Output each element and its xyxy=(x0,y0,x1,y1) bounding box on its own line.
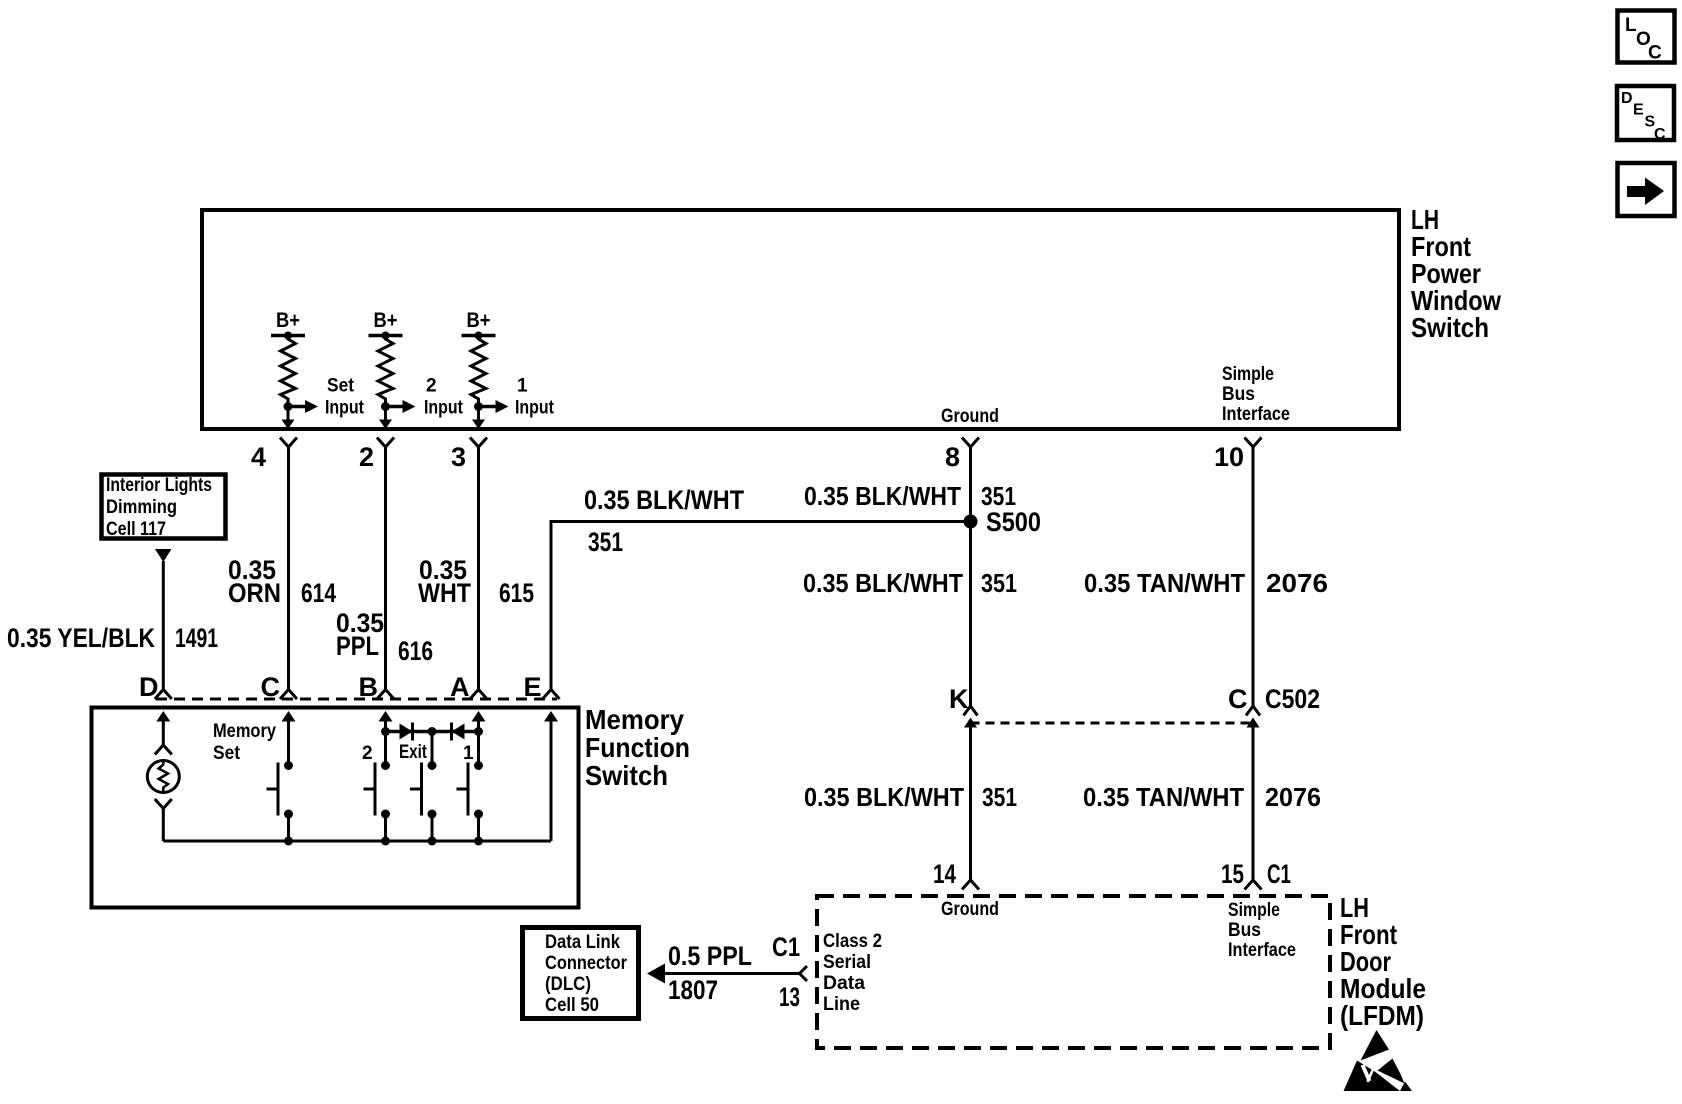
wire 351 K to pin 14 xyxy=(969,726,972,880)
diode D2 xyxy=(452,723,465,741)
svg-text:Memory: Memory xyxy=(585,704,684,735)
label 0.35 WHT on wire 615 xyxy=(418,555,471,608)
svg-text:S500: S500 xyxy=(986,507,1041,537)
svg-text:0.35 YEL/BLK: 0.35 YEL/BLK xyxy=(7,623,155,653)
label 0.35 BLK/WHT below S500 xyxy=(803,568,963,598)
svg-text:15: 15 xyxy=(1221,859,1244,889)
label 614 xyxy=(301,578,336,608)
svg-text:351: 351 xyxy=(982,782,1017,812)
connector pin 3 of window switch xyxy=(451,438,487,473)
component box: LH Front Power Window Switch xyxy=(202,210,1399,429)
connector fork at memory pin B xyxy=(377,690,394,700)
svg-text:Ground: Ground xyxy=(941,406,999,427)
label 0.5 PPL xyxy=(668,941,752,971)
wire 2076 C to pin 15 xyxy=(1252,726,1255,880)
resistor R3 with B+ feed and output arrow xyxy=(462,309,555,429)
svg-text:Switch: Switch xyxy=(1411,312,1489,343)
svg-text:C: C xyxy=(1228,684,1248,714)
label C502 xyxy=(1265,684,1320,714)
svg-text:Line: Line xyxy=(823,994,860,1015)
wire 1807 DLC to C1 pin 13 xyxy=(661,972,800,975)
component box: Data Link Connector xyxy=(523,928,639,1019)
svg-text:0.35 BLK/WHT: 0.35 BLK/WHT xyxy=(804,782,964,812)
lamp socket fork lower xyxy=(155,799,172,809)
label pin E xyxy=(524,672,542,702)
svg-text:Input: Input xyxy=(424,398,464,419)
splice S500 xyxy=(964,515,978,529)
svg-text:Cell 117: Cell 117 xyxy=(106,519,166,540)
svg-text:2: 2 xyxy=(426,376,437,397)
connector fork at memory pin A xyxy=(470,690,487,700)
svg-text:351: 351 xyxy=(981,568,1017,598)
component box: Memory Function Switch xyxy=(92,708,579,908)
label K (C502 pin) xyxy=(949,684,969,714)
label LH Front Door Module (LFDM) xyxy=(1340,892,1426,1031)
svg-text:3: 3 xyxy=(451,442,466,472)
label 13 xyxy=(779,982,800,1012)
svg-text:2076: 2076 xyxy=(1266,568,1328,598)
svg-text:E: E xyxy=(1633,102,1644,119)
svg-text:Interface: Interface xyxy=(1222,404,1290,425)
label Class 2 Serial Data Line xyxy=(823,931,882,1015)
label 0.35 BLK/WHT above S500 xyxy=(804,481,961,511)
label C1 at pin 13 xyxy=(772,932,800,962)
connector pin 8 of window switch xyxy=(945,438,979,473)
svg-text:Data: Data xyxy=(823,973,865,994)
wire 1491 to memory pin D xyxy=(162,561,165,690)
label C1 at pin 15 xyxy=(1267,859,1291,889)
label LH Front Power Window Switch xyxy=(1411,204,1501,343)
connector fork at memory pin D xyxy=(155,690,172,700)
svg-text:C502: C502 xyxy=(1265,684,1320,714)
svg-text:2076: 2076 xyxy=(1265,782,1321,812)
label pin 15 xyxy=(1221,859,1244,889)
icon LOC button xyxy=(1618,11,1675,64)
reference box: Interior Lights Dimming Cell 117 xyxy=(102,475,226,539)
label Simple Bus Interface above pin 10 xyxy=(1222,364,1290,425)
svg-text:1807: 1807 xyxy=(668,975,718,1005)
svg-text:Bus: Bus xyxy=(1228,920,1261,941)
svg-text:Cell 50: Cell 50 xyxy=(545,995,599,1016)
wire 615 (pin 3 to memory A) xyxy=(477,447,480,690)
label 0.35 YEL/BLK on wire 1491 xyxy=(7,623,155,653)
svg-text:K: K xyxy=(949,684,969,714)
pushbutton switch Exit xyxy=(410,732,437,842)
arrow into C502 at K xyxy=(964,718,977,728)
component box: LH Front Door Module (dashed) xyxy=(817,896,1330,1048)
svg-text:Data Link: Data Link xyxy=(545,932,620,953)
label 2076 upper xyxy=(1266,568,1328,598)
svg-text:Simple: Simple xyxy=(1228,900,1280,921)
svg-text:Interior Lights: Interior Lights xyxy=(106,475,212,496)
connector C502 fork at K xyxy=(964,706,978,716)
label 615 xyxy=(499,578,534,608)
arrow to memory pin A xyxy=(472,711,486,732)
svg-text:Exit: Exit xyxy=(399,742,428,763)
svg-text:Function: Function xyxy=(585,732,690,763)
label 0.35 TAN/WHT upper xyxy=(1084,568,1245,598)
wire memory pin E to rail xyxy=(550,720,553,841)
label pin 14 xyxy=(933,859,956,889)
svg-text:C1: C1 xyxy=(1267,859,1291,889)
svg-text:Interface: Interface xyxy=(1228,940,1296,961)
svg-text:D: D xyxy=(1621,90,1633,107)
svg-text:4: 4 xyxy=(251,442,266,472)
label 1 (switch) xyxy=(463,743,474,764)
svg-text:Connector: Connector xyxy=(545,953,628,974)
arrow to memory pin C xyxy=(282,711,296,766)
svg-text:C1: C1 xyxy=(772,932,800,962)
junction dots on rail xyxy=(284,837,483,846)
svg-text:Switch: Switch xyxy=(585,760,668,791)
label pin C xyxy=(261,672,281,702)
bottom rail wire xyxy=(163,840,551,843)
dashed connector line C502 xyxy=(971,722,1254,725)
lamp L1 (illumination) xyxy=(147,761,179,793)
label 351 lower xyxy=(982,782,1017,812)
label Simple Bus Interface at pin 15 xyxy=(1228,900,1296,961)
label 0.35 TAN/WHT lower xyxy=(1083,782,1244,812)
connector C1 fork at pin 13 xyxy=(800,966,808,981)
connector fork at memory pin E xyxy=(543,690,560,700)
svg-text:PPL: PPL xyxy=(336,631,379,661)
label 1491 xyxy=(175,623,218,653)
label 0.35 PPL on wire 616 xyxy=(336,608,384,661)
arrow to memory pin D xyxy=(156,711,170,745)
label C (C502 pin) xyxy=(1228,684,1248,714)
connector pin 15 fork xyxy=(1245,880,1262,890)
pushbutton switch 2 (pin B) xyxy=(364,732,391,842)
svg-text:14: 14 xyxy=(933,859,956,889)
connector pin 4 of window switch xyxy=(251,438,297,473)
arrow into C502 at C xyxy=(1247,718,1260,728)
svg-text:Serial: Serial xyxy=(823,952,871,973)
label pin A xyxy=(450,672,470,702)
svg-text:0.35 BLK/WHT: 0.35 BLK/WHT xyxy=(584,485,744,515)
label 2076 lower xyxy=(1265,782,1321,812)
svg-text:0.35 BLK/WHT: 0.35 BLK/WHT xyxy=(804,481,961,511)
svg-text:Class 2: Class 2 xyxy=(823,931,882,952)
svg-text:WHT: WHT xyxy=(418,578,471,608)
wire 351 from memory E to S500 xyxy=(551,522,971,690)
diode bus wire xyxy=(381,727,483,736)
label Ground at pin 14 xyxy=(941,899,999,920)
svg-text:B+: B+ xyxy=(467,309,491,332)
svg-text:Bus: Bus xyxy=(1222,384,1255,405)
svg-text:0.35 BLK/WHT: 0.35 BLK/WHT xyxy=(803,568,963,598)
label Interior Lights Dimming Cell 117 xyxy=(106,475,212,540)
svg-text:(DLC): (DLC) xyxy=(545,974,591,995)
label 0.35 BLK/WHT lower xyxy=(804,782,964,812)
off-page arrow from Interior Lights box xyxy=(155,549,172,562)
connector pin 10 of window switch xyxy=(1214,438,1262,473)
label Data Link Connector (DLC) Cell 50 xyxy=(545,932,628,1016)
label 616 xyxy=(398,636,433,666)
label 351 on E-S500 wire xyxy=(588,527,623,557)
lamp socket fork upper xyxy=(155,745,172,755)
label Memory Set xyxy=(213,721,276,764)
svg-text:B+: B+ xyxy=(374,309,398,332)
svg-text:13: 13 xyxy=(779,982,800,1012)
arrow to memory pin B xyxy=(379,711,393,732)
resistor R1 with B+ feed and output arrow xyxy=(271,309,365,429)
svg-text:B+: B+ xyxy=(276,309,300,332)
wire 616 (pin 2 to memory B) xyxy=(384,447,387,690)
arrowhead toward DLC xyxy=(647,964,665,984)
pushbutton switch 1 (pin A) xyxy=(457,732,484,842)
label 0.35 ORN on wire 614 xyxy=(228,555,281,608)
svg-text:1491: 1491 xyxy=(175,623,218,653)
svg-text:614: 614 xyxy=(301,578,336,608)
label Exit (switch) xyxy=(399,742,428,763)
svg-text:Input: Input xyxy=(515,398,555,419)
arrow to memory pin E xyxy=(544,711,558,841)
svg-text:10: 10 xyxy=(1214,442,1244,472)
pushbutton switch Memory Set (pin C) xyxy=(267,761,294,841)
ESD sensitive device symbol xyxy=(1344,1030,1413,1091)
connector pin 14 fork xyxy=(962,880,979,890)
svg-text:0.35 TAN/WHT: 0.35 TAN/WHT xyxy=(1084,568,1245,598)
label 351 below S500 xyxy=(981,568,1017,598)
dashed connector line at memory switch xyxy=(156,698,557,701)
svg-text:Set: Set xyxy=(213,743,241,764)
connector fork at memory pin C xyxy=(280,690,297,700)
svg-text:1: 1 xyxy=(463,743,474,764)
svg-text:351: 351 xyxy=(588,527,623,557)
svg-text:Set: Set xyxy=(327,376,355,397)
icon DESC button xyxy=(1617,86,1674,143)
icon next-page arrow button xyxy=(1618,163,1675,216)
label pin D xyxy=(139,672,159,702)
svg-text:Input: Input xyxy=(325,398,365,419)
label S500 xyxy=(986,507,1041,537)
svg-text:C: C xyxy=(1654,126,1666,143)
wire 614 (pin 4 to memory C) xyxy=(287,447,290,690)
label Ground above pin 8 xyxy=(941,406,999,427)
label 1807 xyxy=(668,975,718,1005)
svg-text:(LFDM): (LFDM) xyxy=(1340,1000,1424,1031)
svg-text:Simple: Simple xyxy=(1222,364,1274,385)
resistor R2 with B+ feed and output arrow xyxy=(369,309,464,429)
svg-text:Memory: Memory xyxy=(213,721,276,742)
connector pin 2 of window switch xyxy=(359,438,394,473)
svg-text:0.35 TAN/WHT: 0.35 TAN/WHT xyxy=(1083,782,1244,812)
svg-text:1: 1 xyxy=(517,376,528,397)
svg-text:8: 8 xyxy=(945,442,960,472)
label pin B xyxy=(359,672,379,702)
connector C502 fork at C xyxy=(1246,706,1260,716)
label Memory Function Switch xyxy=(585,704,690,791)
wire 2076 pin 10 to C xyxy=(1252,447,1255,706)
svg-text:2: 2 xyxy=(359,442,374,472)
svg-text:C: C xyxy=(1648,43,1662,64)
svg-text:0.5 PPL: 0.5 PPL xyxy=(668,941,752,971)
svg-text:Ground: Ground xyxy=(941,899,999,920)
svg-text:ORN: ORN xyxy=(228,578,281,608)
diode D1 xyxy=(400,723,413,741)
svg-text:2: 2 xyxy=(362,743,373,764)
wire lamp to rail xyxy=(162,809,165,842)
label 351 above S500 xyxy=(981,481,1016,511)
svg-text:616: 616 xyxy=(398,636,433,666)
svg-text:Dimming: Dimming xyxy=(106,497,177,518)
label 2 (switch) xyxy=(362,743,373,764)
label 0.35 BLK/WHT on E-S500 wire xyxy=(584,485,744,515)
svg-text:615: 615 xyxy=(499,578,534,608)
wire 351 pin 8 to K xyxy=(969,447,972,706)
